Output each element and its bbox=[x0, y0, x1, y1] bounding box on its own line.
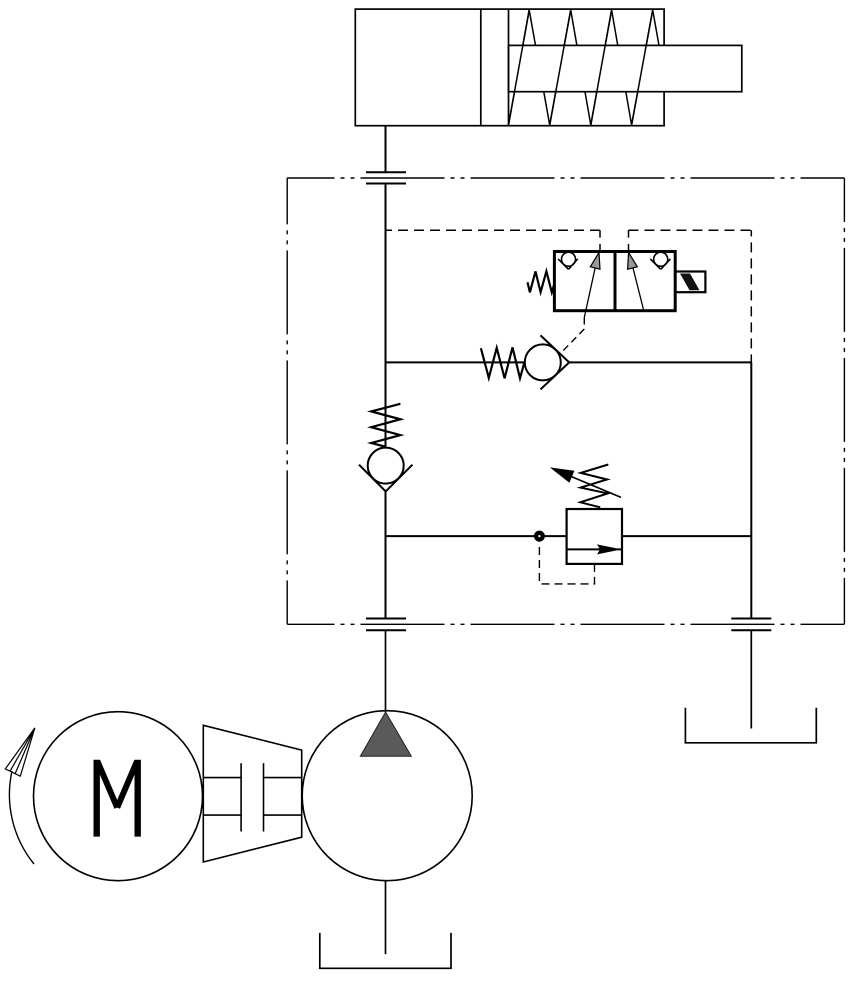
solenoid valve V1 body bbox=[554, 252, 675, 311]
check valve CV1 seat bbox=[541, 335, 570, 389]
check valve CV2 spring bbox=[371, 404, 400, 447]
wire relief line left bbox=[386, 535, 567, 537]
manifold boundary (phantom line box) bbox=[287, 178, 844, 624]
check valve CV1 ball bbox=[525, 344, 561, 380]
valve V1 right ball seat bbox=[650, 252, 670, 269]
relief valve RV1 adjustment arrow bbox=[550, 467, 621, 497]
relief valve RV1 spring bbox=[580, 465, 608, 508]
node J1 junction dot bbox=[534, 531, 545, 542]
coupling trapezoid bbox=[203, 725, 301, 862]
wire pump suction to tank T2 bbox=[385, 881, 387, 955]
pump P1 bbox=[302, 711, 472, 881]
cylinder C1 return spring bbox=[509, 10, 660, 125]
cylinder C1 spring strokes over rod bbox=[509, 10, 653, 125]
motor rotation arrow arc bbox=[9, 771, 34, 864]
valve V1 right flow arrow bbox=[628, 253, 644, 311]
valve V1 return spring bbox=[528, 271, 555, 292]
relief valve RV1 flow arrow bbox=[567, 544, 622, 554]
motor rotation arrow head bbox=[5, 728, 35, 776]
relief valve RV1 pilot line (dashed) bbox=[539, 542, 594, 584]
wire main vertical upper segment bbox=[385, 184, 387, 448]
check valve CV1 spring bbox=[481, 347, 525, 378]
cylinder C1 body bbox=[355, 9, 664, 126]
pilot line manifold to valve (dashed) bbox=[386, 230, 752, 362]
check valve CV2 ball bbox=[368, 448, 404, 484]
valve V1 left flow arrow bbox=[584, 253, 600, 318]
wire middle line left bbox=[386, 361, 525, 363]
tank T1 bbox=[685, 708, 816, 743]
tank T2 bbox=[320, 933, 451, 968]
wire right vertical bbox=[750, 362, 752, 618]
wire relief line right bbox=[622, 535, 751, 537]
motor M1 bbox=[34, 712, 203, 881]
motor M1 label M bbox=[97, 760, 138, 837]
cylinder C1 piston rod bbox=[509, 45, 742, 91]
wire cylinder to manifold top port bbox=[385, 126, 387, 173]
check valve CV2 seat bbox=[359, 465, 412, 492]
cylinder C1 piston bbox=[481, 9, 509, 126]
port symbol bottom left (pressure port) bbox=[366, 619, 406, 631]
pilot line valve to check valve CV1 (dashed) bbox=[561, 318, 585, 354]
wire tank port to tank T1 bbox=[750, 630, 752, 728]
wire middle line right bbox=[569, 361, 751, 363]
valve V1 left ball seat bbox=[558, 252, 578, 269]
port symbol top (cylinder port) bbox=[366, 172, 406, 183]
port symbol bottom right (tank port) bbox=[731, 619, 771, 631]
valve V1 solenoid coil bbox=[675, 272, 705, 293]
relief valve RV1 body bbox=[567, 509, 622, 564]
wire main vertical lower segment bbox=[385, 491, 387, 618]
coupling claws bbox=[203, 763, 301, 831]
pump P1 flow triangle bbox=[360, 712, 411, 756]
wire pump to pressure port bbox=[385, 630, 387, 712]
